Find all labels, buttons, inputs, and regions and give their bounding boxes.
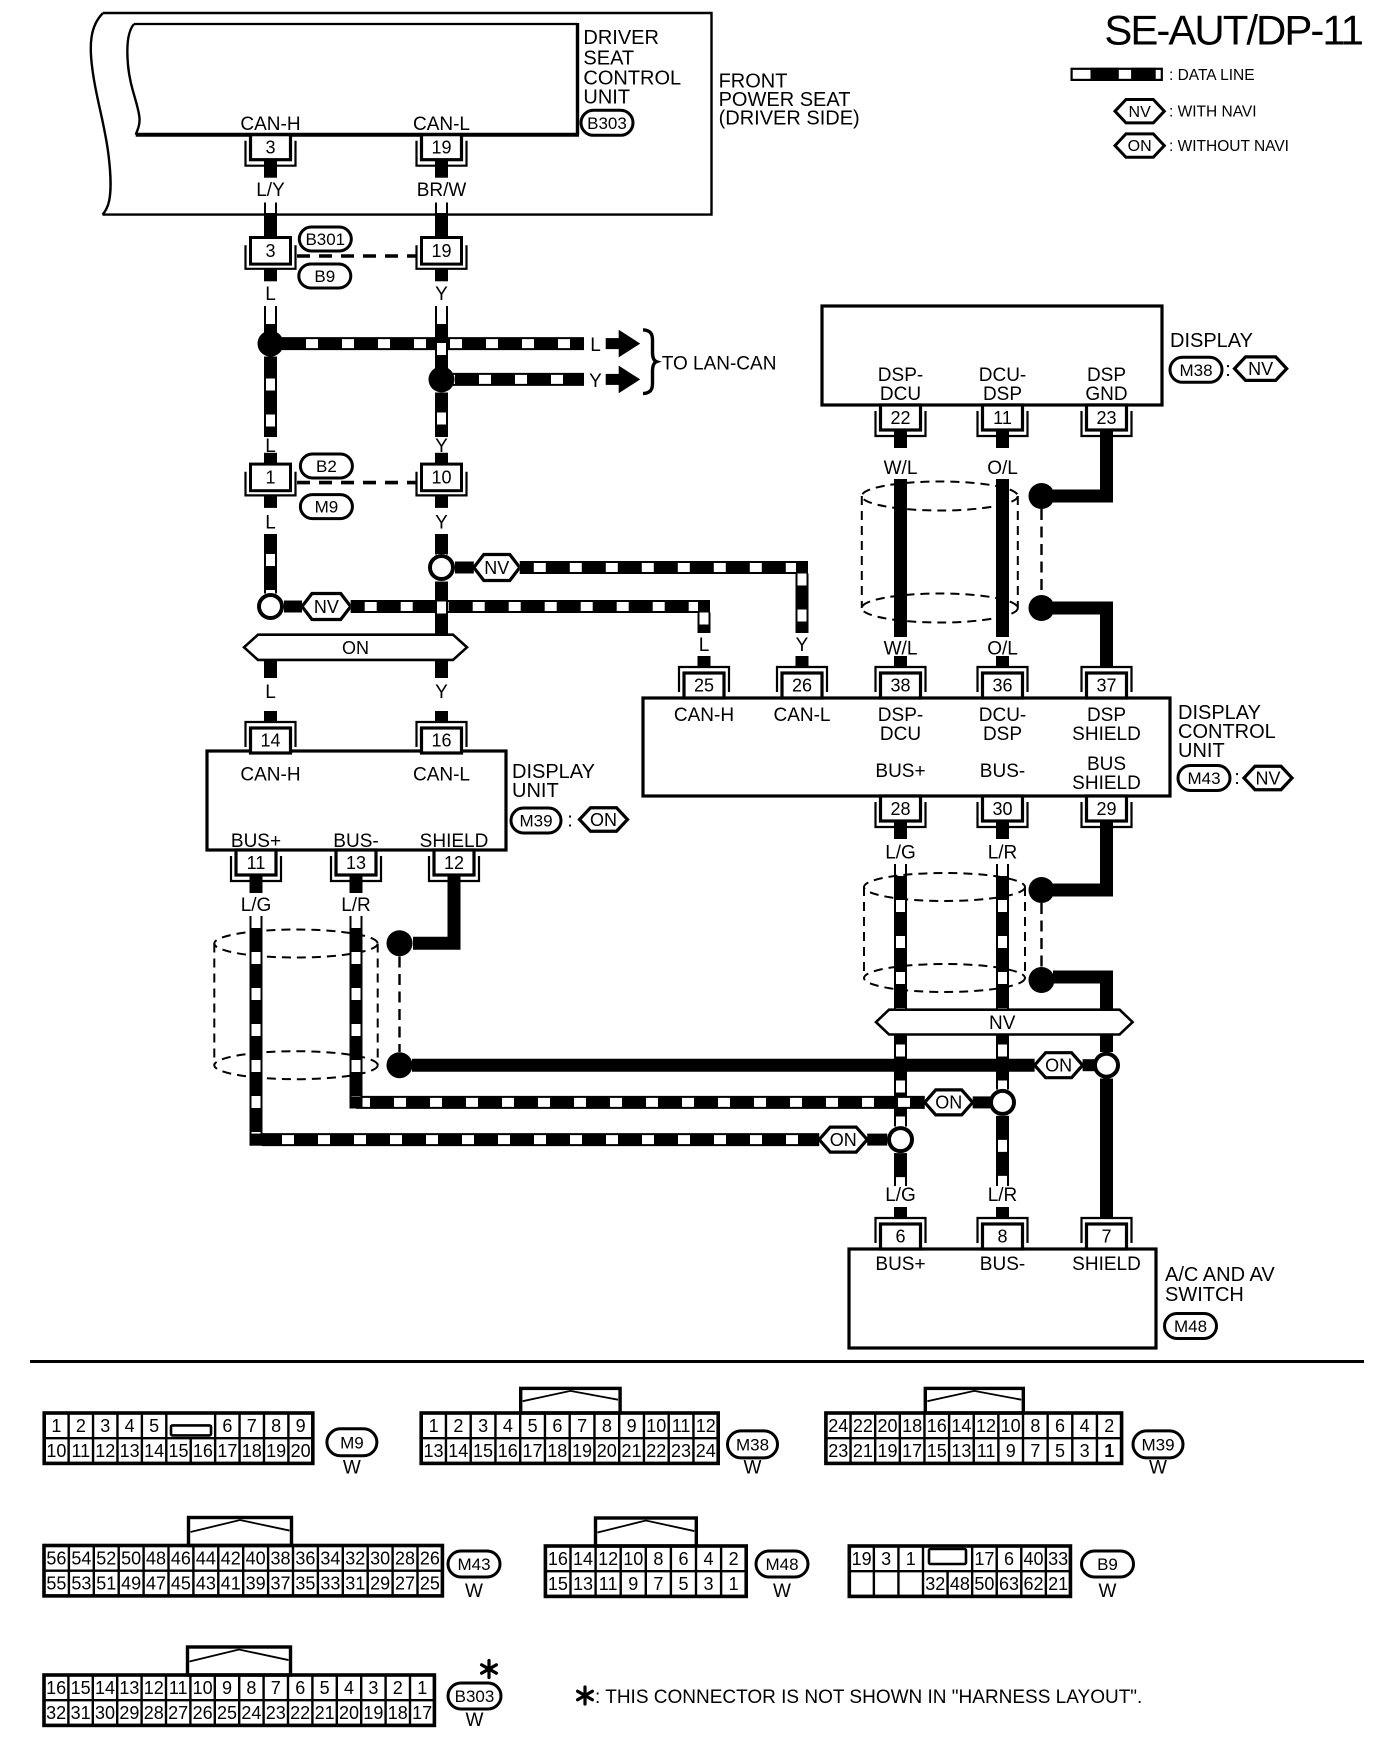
svg-text:3: 3 — [265, 241, 275, 261]
terminal 29 (M43) — [1082, 802, 1132, 827]
shield drain to 37 — [1053, 608, 1107, 667]
svg-text:M39: M39 — [1141, 1435, 1174, 1454]
svg-text:M48: M48 — [765, 1555, 798, 1574]
wire BUS- below NV — [997, 1035, 1009, 1090]
svg-text:9: 9 — [296, 1416, 306, 1436]
svg-text:36: 36 — [992, 676, 1012, 696]
svg-text:35: 35 — [295, 1574, 315, 1594]
svg-text:17: 17 — [974, 1549, 994, 1569]
connector face M48 hood — [596, 1518, 697, 1546]
svg-text:SHIELD: SHIELD — [1072, 1254, 1141, 1275]
connector junction 1 (B2/M9) — [264, 453, 277, 465]
svg-text:B9: B9 — [314, 267, 335, 286]
svg-text:NV: NV — [1255, 768, 1280, 788]
svg-text:: DATA LINE: : DATA LINE — [1169, 67, 1255, 84]
svg-text:36: 36 — [295, 1548, 315, 1568]
terminal 37 (M43) — [1082, 667, 1132, 692]
svg-text:3: 3 — [100, 1416, 110, 1436]
connector M38 oval — [1170, 357, 1222, 382]
svg-text:44: 44 — [196, 1548, 216, 1568]
svg-text:21: 21 — [622, 1441, 642, 1461]
svg-text:19: 19 — [877, 1441, 897, 1461]
a/c and av switch box (M48) — [849, 1249, 1156, 1348]
svg-text:50: 50 — [974, 1574, 994, 1594]
ON hexagon (BUS+) — [819, 1127, 867, 1152]
svg-text:BUS-: BUS- — [980, 1254, 1025, 1275]
svg-text:W: W — [1099, 1581, 1117, 1602]
svg-text:7: 7 — [1030, 1441, 1040, 1461]
svg-text:UNIT: UNIT — [583, 87, 630, 109]
svg-text:53: 53 — [71, 1574, 91, 1594]
terminal 19 (B303) — [417, 141, 467, 166]
svg-text:W: W — [465, 1581, 483, 1602]
svg-text:12: 12 — [444, 853, 464, 873]
svg-text:6: 6 — [552, 1416, 562, 1436]
display unit box (M38) — [822, 306, 1162, 405]
svg-text:18: 18 — [388, 1703, 408, 1723]
svg-text:8: 8 — [246, 1678, 256, 1698]
svg-text:11: 11 — [71, 1441, 90, 1461]
svg-text:22: 22 — [853, 1416, 873, 1436]
svg-text:2: 2 — [76, 1416, 86, 1436]
svg-text:33: 33 — [320, 1574, 340, 1594]
svg-text:13: 13 — [346, 853, 366, 873]
svg-text:BR/W: BR/W — [417, 180, 467, 201]
svg-text:(DRIVER SIDE): (DRIVER SIDE) — [719, 107, 860, 129]
svg-text:6: 6 — [295, 1678, 305, 1698]
wire Y segment — [436, 306, 447, 324]
separator line — [30, 1360, 1364, 1363]
svg-text:9: 9 — [222, 1678, 232, 1698]
svg-text:8: 8 — [997, 1227, 1007, 1247]
svg-text:6: 6 — [895, 1227, 905, 1247]
svg-text:L/R: L/R — [988, 1185, 1018, 1206]
connector face M38 — [421, 1413, 718, 1463]
shield dashed link (DSP) — [1040, 509, 1042, 596]
shield dot bottom (BUS left) — [387, 1052, 413, 1078]
svg-text:5: 5 — [149, 1416, 159, 1436]
svg-text:L/G: L/G — [885, 1185, 916, 1206]
svg-text:Y: Y — [435, 682, 448, 703]
svg-text:17: 17 — [902, 1441, 922, 1461]
svg-text:10: 10 — [1001, 1416, 1021, 1436]
svg-text:14: 14 — [573, 1549, 593, 1569]
connector M38 face oval — [728, 1431, 778, 1458]
terminal 7 (M48) — [1082, 1218, 1132, 1243]
svg-text:10: 10 — [646, 1416, 666, 1436]
connector face B303 — [44, 1675, 434, 1725]
svg-text:34: 34 — [320, 1548, 340, 1568]
svg-text:DSP-: DSP- — [878, 705, 923, 726]
svg-text:22: 22 — [290, 1703, 310, 1723]
svg-text:W/L: W/L — [884, 458, 918, 479]
svg-text:CAN-H: CAN-H — [240, 114, 300, 135]
svg-text:B303: B303 — [587, 114, 627, 133]
terminal 13 (M39) — [331, 856, 381, 881]
svg-text:L: L — [265, 513, 276, 534]
svg-text:2: 2 — [1104, 1416, 1114, 1436]
svg-text:16: 16 — [431, 731, 451, 751]
svg-text:ON: ON — [342, 638, 369, 658]
ON hexagon (BUS-) — [925, 1090, 973, 1115]
front power seat outer box — [103, 13, 712, 215]
asterisk at B303 — [482, 1661, 497, 1678]
legend NV symbol — [1115, 100, 1164, 123]
svg-text:DCU-: DCU- — [979, 365, 1027, 386]
svg-text:17: 17 — [217, 1441, 237, 1461]
NV branch hexagon Y — [474, 555, 520, 581]
svg-text:DRIVER: DRIVER — [583, 27, 659, 49]
svg-text:13: 13 — [951, 1441, 971, 1461]
svg-text:9: 9 — [1006, 1441, 1016, 1461]
svg-text:40: 40 — [246, 1548, 266, 1568]
svg-text:14: 14 — [951, 1416, 971, 1436]
svg-text:ON: ON — [590, 810, 617, 830]
terminal 3 (B303) — [246, 141, 296, 166]
svg-text:DSP: DSP — [983, 724, 1022, 745]
connector M48 face oval — [756, 1551, 808, 1577]
terminal 12 (M39) — [429, 856, 479, 881]
connector M9 face oval — [327, 1429, 377, 1456]
svg-text:54: 54 — [71, 1548, 91, 1568]
svg-text:49: 49 — [121, 1574, 141, 1594]
svg-text:NV: NV — [1129, 104, 1152, 121]
wire Y to terminal 26 — [796, 574, 808, 634]
svg-text:63: 63 — [999, 1574, 1019, 1594]
wire SHIELD below NV — [1100, 1035, 1113, 1053]
svg-text:2: 2 — [729, 1549, 739, 1569]
wire L/G data — [251, 916, 262, 928]
svg-text:16: 16 — [193, 1441, 213, 1461]
shield cylinder (BUS lines left) — [214, 930, 377, 958]
wire BUS+ from 28 — [895, 864, 906, 876]
svg-text:6: 6 — [678, 1549, 688, 1569]
svg-text:DCU: DCU — [880, 724, 921, 745]
connector face M9 — [44, 1413, 313, 1463]
svg-text:DSP-: DSP- — [878, 365, 923, 386]
svg-text:6: 6 — [222, 1416, 232, 1436]
svg-text:CAN-L: CAN-L — [773, 705, 830, 726]
ON junction circle (shield) — [1095, 1054, 1118, 1077]
shield cylinder (DSP lines) — [862, 482, 1018, 511]
svg-text:45: 45 — [171, 1574, 191, 1594]
svg-text:2: 2 — [393, 1678, 403, 1698]
connector face M39 — [826, 1413, 1122, 1463]
connector B9 oval — [299, 264, 351, 288]
svg-text:16: 16 — [548, 1549, 568, 1569]
svg-text:20: 20 — [339, 1703, 359, 1723]
svg-text:: WITH NAVI: : WITH NAVI — [1169, 104, 1257, 121]
shield drain 29 — [1053, 839, 1107, 890]
svg-text:13: 13 — [120, 1441, 140, 1461]
svg-text:3: 3 — [704, 1574, 714, 1594]
wire Y data segment 3 — [436, 582, 448, 636]
svg-text:9: 9 — [628, 1574, 638, 1594]
svg-text:29: 29 — [119, 1703, 139, 1723]
svg-text:15: 15 — [473, 1441, 493, 1461]
connector face M39 hood — [925, 1388, 1023, 1413]
svg-text:DSP: DSP — [983, 384, 1022, 405]
svg-text:30: 30 — [370, 1548, 390, 1568]
svg-text:DSP: DSP — [1087, 705, 1126, 726]
svg-text:23: 23 — [828, 1441, 848, 1461]
svg-text:L: L — [699, 635, 710, 656]
shield dashed link (BUS right) — [1040, 903, 1042, 967]
svg-text:12: 12 — [144, 1678, 164, 1698]
svg-text:24: 24 — [696, 1441, 716, 1461]
svg-text:7: 7 — [653, 1574, 663, 1594]
svg-text:52: 52 — [96, 1548, 116, 1568]
terminal 22 (M38) — [876, 411, 926, 436]
svg-text:47: 47 — [146, 1574, 166, 1594]
svg-text:18: 18 — [547, 1441, 567, 1461]
svg-text:7: 7 — [271, 1678, 281, 1698]
svg-text:3: 3 — [368, 1678, 378, 1698]
svg-text:7: 7 — [1101, 1227, 1111, 1247]
connector M43 face oval — [448, 1551, 500, 1577]
svg-text:28: 28 — [890, 799, 910, 819]
connector B303 face oval — [448, 1683, 501, 1709]
corner L/G — [250, 1134, 263, 1146]
corner L-25 — [698, 601, 710, 613]
corner Y-26 — [796, 562, 808, 574]
svg-text:32: 32 — [345, 1548, 365, 1568]
shield dot bottom (DSP) — [1029, 595, 1055, 621]
svg-text:12: 12 — [598, 1549, 618, 1569]
ON BUS- line — [356, 1096, 925, 1108]
wire BR/W segment — [436, 203, 447, 214]
svg-text:19: 19 — [431, 138, 451, 158]
svg-text:32: 32 — [925, 1574, 945, 1594]
svg-text:Y: Y — [589, 371, 602, 392]
svg-text::: : — [567, 810, 573, 832]
svg-text:1: 1 — [265, 468, 275, 488]
svg-text:W: W — [1149, 1458, 1167, 1479]
svg-text:SE-AUT/DP-11: SE-AUT/DP-11 — [1104, 7, 1362, 54]
connector B9 face oval — [1082, 1551, 1134, 1577]
svg-text:5: 5 — [678, 1574, 688, 1594]
NV hexagon at M43 — [1244, 766, 1292, 790]
svg-text:4: 4 — [503, 1416, 513, 1436]
svg-text:15: 15 — [168, 1441, 188, 1461]
svg-text:26: 26 — [420, 1548, 440, 1568]
svg-text:SEAT: SEAT — [583, 47, 634, 69]
svg-text:DCU-: DCU- — [979, 705, 1027, 726]
svg-text:3: 3 — [881, 1549, 891, 1569]
svg-text:21: 21 — [315, 1703, 335, 1723]
connector face B303 hood — [188, 1647, 291, 1675]
svg-text:10: 10 — [623, 1549, 643, 1569]
svg-text:W: W — [343, 1458, 361, 1479]
data line Y to LAN-CAN — [453, 373, 584, 385]
brace to LAN-CAN — [643, 330, 657, 394]
svg-text:18: 18 — [242, 1441, 262, 1461]
svg-text:16: 16 — [498, 1441, 518, 1461]
svg-text:14: 14 — [144, 1441, 164, 1461]
svg-text:40: 40 — [1024, 1549, 1044, 1569]
svg-text:12: 12 — [696, 1416, 716, 1436]
svg-text:39: 39 — [246, 1574, 266, 1594]
wire SHIELD to 7 — [1100, 1079, 1113, 1219]
svg-text:26: 26 — [193, 1703, 213, 1723]
connector junction 19 (B301/B9) — [435, 226, 448, 238]
ON hexagon at M39 — [580, 808, 628, 832]
svg-text:16: 16 — [46, 1678, 66, 1698]
svg-text:41: 41 — [221, 1574, 241, 1594]
wire BUS- to 8 — [997, 1116, 1009, 1186]
svg-text:1: 1 — [51, 1416, 61, 1436]
shield cylinder (BUS lines right) — [864, 873, 1025, 901]
shield drain to NV — [1053, 977, 1107, 1010]
svg-text:14: 14 — [448, 1441, 468, 1461]
svg-text:CAN-H: CAN-H — [240, 765, 300, 786]
shield dashed link (BUS left) — [398, 957, 400, 1053]
wire L/R data — [351, 916, 362, 928]
svg-text:M48: M48 — [1174, 1317, 1207, 1336]
svg-text:4: 4 — [344, 1678, 354, 1698]
svg-text:W: W — [744, 1458, 762, 1479]
svg-text:ON: ON — [830, 1130, 857, 1150]
svg-text:NV: NV — [484, 558, 509, 578]
connector B301 oval — [299, 227, 351, 251]
connector M9 oval — [300, 495, 352, 519]
svg-text:L/G: L/G — [241, 895, 272, 916]
svg-text:ON: ON — [935, 1093, 962, 1113]
ON hexagon (shield) — [1035, 1053, 1083, 1078]
svg-text:21: 21 — [1048, 1574, 1068, 1594]
svg-text:26: 26 — [792, 676, 812, 696]
svg-text:O/L: O/L — [987, 458, 1018, 479]
svg-text:3: 3 — [1080, 1441, 1090, 1461]
connector face M48 — [545, 1546, 746, 1596]
svg-text:20: 20 — [291, 1441, 311, 1461]
svg-text:25: 25 — [694, 676, 714, 696]
svg-text:37: 37 — [1096, 676, 1116, 696]
ON wire piece (shield) — [1083, 1059, 1096, 1071]
svg-text:W: W — [773, 1581, 791, 1602]
svg-text:M38: M38 — [1179, 361, 1212, 380]
svg-text:31: 31 — [71, 1703, 91, 1723]
shield dot bottom (BUS right) — [1029, 967, 1055, 993]
ON option hexagon (both CAN wires) — [244, 635, 467, 660]
legend ON symbol — [1115, 134, 1164, 157]
svg-text:DCU: DCU — [880, 384, 921, 405]
svg-text:48: 48 — [146, 1548, 166, 1568]
svg-text:17: 17 — [412, 1703, 432, 1723]
arrow Y — [606, 374, 620, 385]
connector M39 face oval — [1133, 1431, 1183, 1458]
wire O/L solid — [996, 479, 1009, 637]
svg-text:55: 55 — [46, 1574, 66, 1594]
svg-text:30: 30 — [95, 1703, 115, 1723]
svg-text:24: 24 — [828, 1416, 848, 1436]
wire Y data segment — [436, 393, 448, 438]
svg-text:3: 3 — [265, 138, 275, 158]
NV junction circle L — [259, 595, 282, 618]
terminal 38 (M43) — [876, 667, 926, 692]
wire Y data segment 2 — [436, 534, 448, 555]
dashed connector link B301/B9 — [297, 254, 416, 258]
svg-text:22: 22 — [890, 408, 910, 428]
svg-text:BUS-: BUS- — [980, 761, 1025, 782]
svg-text:11: 11 — [993, 408, 1012, 428]
wire BUS+ to 6 — [895, 1153, 907, 1186]
svg-text:23: 23 — [1096, 408, 1116, 428]
svg-text:20: 20 — [877, 1416, 897, 1436]
svg-text:11: 11 — [672, 1416, 691, 1436]
svg-text:L: L — [590, 335, 601, 356]
svg-text:BUS+: BUS+ — [875, 1254, 925, 1275]
svg-text:Y: Y — [435, 513, 448, 534]
NV hexagon at M38 — [1235, 357, 1287, 381]
dashed connector link B2/M9 — [297, 481, 416, 485]
svg-text:18: 18 — [902, 1416, 922, 1436]
svg-text:L/R: L/R — [988, 843, 1018, 864]
arrow L — [606, 338, 620, 349]
svg-text:2: 2 — [453, 1416, 463, 1436]
svg-text:7: 7 — [577, 1416, 587, 1436]
footnote — [578, 1687, 593, 1704]
svg-text:19: 19 — [572, 1441, 592, 1461]
svg-text:10: 10 — [431, 468, 451, 488]
svg-text:38: 38 — [890, 676, 910, 696]
svg-text:CAN-L: CAN-L — [413, 114, 470, 135]
connector B2 oval — [300, 454, 352, 478]
svg-text:CAN-H: CAN-H — [674, 705, 734, 726]
terminal 36 (M43) — [978, 667, 1028, 692]
svg-text:8: 8 — [653, 1549, 663, 1569]
terminal 14 (M39) — [246, 722, 296, 747]
terminal 16 (M39) — [417, 722, 467, 747]
svg-text:L: L — [265, 682, 276, 703]
svg-text:42: 42 — [221, 1548, 241, 1568]
connector junction 3 (B301/B9) — [264, 226, 277, 238]
svg-text:37: 37 — [271, 1574, 291, 1594]
svg-text:43: 43 — [196, 1574, 216, 1594]
wire L data segment 2 — [265, 534, 277, 594]
shield dot top (DSP) — [1029, 483, 1055, 509]
connector M43 oval — [1178, 766, 1230, 791]
svg-text:33: 33 — [1048, 1549, 1068, 1569]
svg-text:16: 16 — [927, 1416, 947, 1436]
svg-text:27: 27 — [395, 1574, 415, 1594]
svg-text:14: 14 — [260, 731, 280, 751]
svg-text:31: 31 — [345, 1574, 365, 1594]
wire L data segment — [265, 357, 277, 438]
svg-text:38: 38 — [271, 1548, 291, 1568]
NV junction circle Y — [430, 556, 453, 579]
shield drain 23 — [1053, 446, 1107, 496]
svg-text:19: 19 — [431, 241, 451, 261]
svg-text:B9: B9 — [1097, 1555, 1118, 1574]
svg-text:29: 29 — [1096, 799, 1116, 819]
svg-text:29: 29 — [370, 1574, 390, 1594]
svg-text:48: 48 — [950, 1574, 970, 1594]
junction dot Y — [429, 366, 455, 392]
svg-text:8: 8 — [1030, 1416, 1040, 1436]
svg-text:4: 4 — [704, 1549, 714, 1569]
svg-text:19: 19 — [363, 1703, 383, 1723]
svg-text:51: 51 — [96, 1574, 116, 1594]
svg-text:11: 11 — [247, 853, 266, 873]
svg-text:CAN-L: CAN-L — [413, 765, 470, 786]
NV branch wire Y — [455, 562, 474, 574]
svg-text:1: 1 — [1104, 1441, 1114, 1461]
svg-text:B303: B303 — [455, 1687, 495, 1706]
svg-text:GND: GND — [1085, 384, 1127, 405]
svg-text:23: 23 — [266, 1703, 286, 1723]
connector face B9 — [849, 1546, 1070, 1596]
